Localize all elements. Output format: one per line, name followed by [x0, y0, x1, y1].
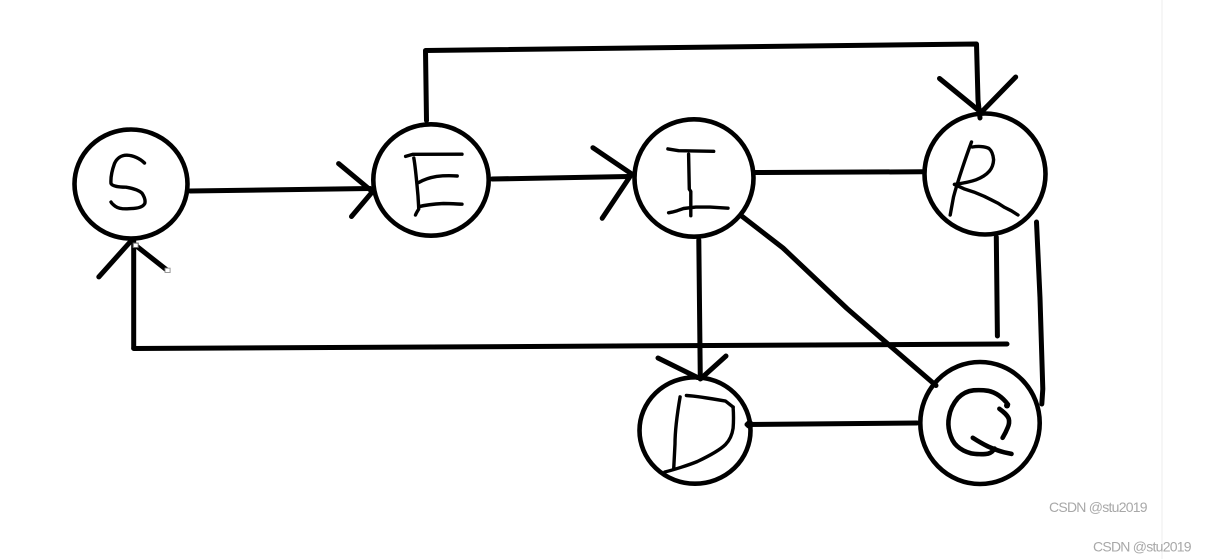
node Q: [920, 362, 1039, 484]
selection artifact square at arrow tip: [133, 243, 138, 247]
node E: [373, 124, 488, 235]
blob at D-Q start: [745, 420, 753, 428]
wire E->I: [492, 177, 628, 180]
svg-text:CSDN @stu2019: CSDN @stu2019: [1093, 539, 1192, 555]
wire I->Q diagonal: [741, 216, 936, 386]
node I: [635, 119, 754, 236]
canvas edge line: [1161, 0, 1163, 559]
node S: [75, 130, 188, 239]
selection artifact square: [165, 268, 170, 272]
node D: [640, 377, 751, 483]
arrowhead E->I: [593, 148, 632, 219]
wire R->Q right: [1037, 222, 1043, 404]
arrowhead S->E: [339, 164, 373, 217]
svg-text:CSDN @stu2019: CSDN @stu2019: [1049, 499, 1148, 515]
wire D-Q: [747, 423, 917, 425]
node R: [925, 114, 1046, 235]
wire I->D vertical: [699, 240, 701, 379]
wire long horizontal R->S: [134, 344, 1007, 349]
wire up to S: [131, 241, 136, 348]
wire S->E: [190, 189, 370, 192]
arrowhead into R top: [940, 77, 1016, 112]
wire E top to R top: [426, 44, 981, 121]
arrowhead into S bottom: [99, 241, 167, 277]
wire R down segment: [996, 237, 997, 336]
wire I-R: [755, 169, 922, 175]
arrowhead into D top: [658, 356, 726, 379]
